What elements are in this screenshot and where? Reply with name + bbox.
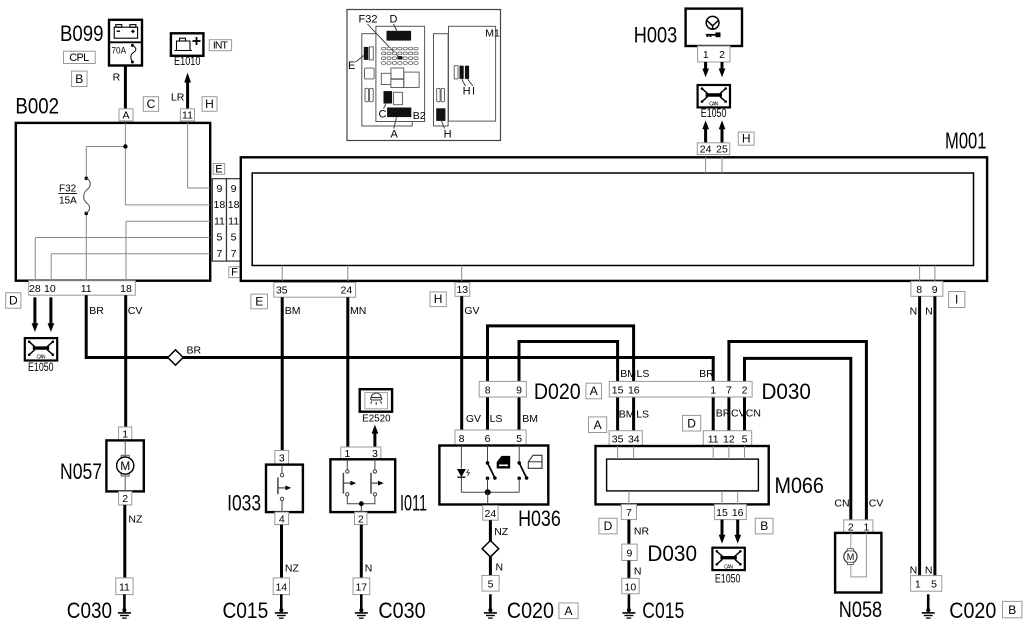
wire stub pin 9 bottom xyxy=(934,266,936,281)
svg-text:BR: BR xyxy=(187,344,202,356)
wire LS D020-8 to H036-6 xyxy=(486,397,489,430)
pin 1 box xyxy=(119,427,132,440)
svg-text:N: N xyxy=(496,562,504,574)
svg-text:LR: LR xyxy=(171,91,185,103)
top stubs xyxy=(618,446,745,459)
svg-text:B2: B2 xyxy=(413,110,426,122)
I011 box xyxy=(330,459,395,512)
pin 24 box xyxy=(483,506,498,521)
svg-text:E1010: E1010 xyxy=(174,56,201,68)
svg-text:18: 18 xyxy=(214,199,226,211)
wire stub pin 8 bottom xyxy=(919,266,921,281)
svg-text:CN: CN xyxy=(746,408,761,420)
wire N D030-9 to C015 xyxy=(627,561,630,579)
join to pin 2 xyxy=(347,496,375,512)
wire BM D020-9 to H036-5 xyxy=(518,397,521,430)
svg-text:D030: D030 xyxy=(647,541,697,566)
wire NZ N057-2 down xyxy=(123,505,126,578)
svg-text:A: A xyxy=(594,418,602,432)
svg-text:A: A xyxy=(391,129,399,141)
svg-text:1: 1 xyxy=(710,384,716,396)
wire MN M001-24 to I011-1 xyxy=(346,297,349,447)
svg-text:7: 7 xyxy=(231,248,237,260)
svg-text:H036: H036 xyxy=(518,506,561,531)
node diamond xyxy=(482,541,499,557)
boxed label C xyxy=(143,97,158,112)
wire NR M066-7 to D030-9 xyxy=(627,520,630,545)
svg-text:5: 5 xyxy=(516,433,522,445)
svg-text:N: N xyxy=(910,565,918,577)
pin row box 8 9 xyxy=(911,281,943,296)
svg-text:B: B xyxy=(1008,603,1016,617)
svg-text:BM: BM xyxy=(619,409,635,421)
svg-text:8: 8 xyxy=(459,433,465,445)
I033 box xyxy=(266,465,303,512)
pin A box xyxy=(119,109,133,121)
svg-text:R: R xyxy=(113,72,121,84)
svg-text:1: 1 xyxy=(122,429,128,441)
fuse grid xyxy=(382,47,419,64)
svg-text:4: 4 xyxy=(279,513,285,525)
pin 2 box xyxy=(119,491,132,505)
svg-text:M: M xyxy=(847,552,855,562)
svg-text:BM: BM xyxy=(620,368,636,380)
wire arrow up pin 24 xyxy=(704,129,707,143)
ground C020 B xyxy=(922,594,935,618)
wire R battery to B002 pin A xyxy=(124,66,127,110)
junction node dot xyxy=(123,144,127,148)
svg-text:C030: C030 xyxy=(378,598,425,623)
module M1 panel xyxy=(449,26,496,121)
svg-text:14: 14 xyxy=(275,582,287,594)
svg-text:C015: C015 xyxy=(223,598,269,623)
svg-text:B099: B099 xyxy=(60,21,104,46)
svg-text:D: D xyxy=(604,519,613,533)
wire arrow down B002-10 xyxy=(49,297,52,324)
wire LS D030-16 to M066-34 xyxy=(632,397,635,431)
ground C030 xyxy=(118,594,131,618)
motor M symbol xyxy=(124,440,126,456)
pin 11 box (C030) xyxy=(116,578,133,595)
boxed label H xyxy=(430,292,446,307)
svg-text:17: 17 xyxy=(355,582,367,594)
svg-text:1: 1 xyxy=(863,521,869,533)
B002 box xyxy=(16,123,210,281)
svg-text:5: 5 xyxy=(931,579,937,591)
svg-text:8: 8 xyxy=(485,384,491,396)
battery B099 box xyxy=(109,20,142,66)
H003 pin row box 1 2 xyxy=(698,46,730,62)
dome light icon xyxy=(371,393,381,398)
svg-text:1: 1 xyxy=(703,49,709,61)
svg-text:2: 2 xyxy=(848,521,854,533)
svg-text:35: 35 xyxy=(276,285,288,297)
svg-text:MN: MN xyxy=(350,305,366,317)
svg-text:5: 5 xyxy=(742,433,748,445)
wire BR D030-1 to M066-11 xyxy=(712,397,715,431)
svg-text:I: I xyxy=(955,293,958,307)
boxed label B xyxy=(755,518,773,534)
boxed label E xyxy=(251,294,268,309)
svg-text:E: E xyxy=(255,294,263,308)
svg-text:18: 18 xyxy=(120,283,132,295)
internal wiring xyxy=(851,533,867,577)
svg-text:I033: I033 xyxy=(227,491,261,516)
svg-text:11: 11 xyxy=(228,215,239,227)
svg-text:LS: LS xyxy=(636,409,649,421)
svg-text:9: 9 xyxy=(231,183,237,195)
switch 2 xyxy=(371,459,379,496)
slot E black xyxy=(364,47,369,60)
svg-text:34: 34 xyxy=(628,433,640,445)
boxed label D xyxy=(599,518,617,534)
pin 2 box xyxy=(355,512,368,525)
battery icon xyxy=(114,25,137,39)
M066 inner box xyxy=(607,459,759,491)
svg-text:18: 18 xyxy=(228,199,240,211)
ground C015 xyxy=(622,594,635,618)
ground C030 xyxy=(355,594,368,618)
svg-text:H: H xyxy=(434,292,443,306)
svg-text:12: 12 xyxy=(723,433,735,445)
M066 outer box xyxy=(596,446,769,504)
boxed label F xyxy=(229,267,241,278)
svg-text:A: A xyxy=(564,604,572,618)
pin row box 15 16 xyxy=(715,504,747,519)
svg-text:N: N xyxy=(925,305,933,317)
boxed label A xyxy=(589,417,607,433)
svg-text:A: A xyxy=(590,384,598,398)
wire BM loop D020-9 to D030-15 xyxy=(519,342,618,382)
svg-text:C020: C020 xyxy=(507,598,554,623)
N058 pin row box 2 1 xyxy=(844,520,873,533)
svg-text:GV: GV xyxy=(464,305,479,317)
svg-text:16: 16 xyxy=(732,507,744,519)
pin 3 box xyxy=(275,451,289,465)
svg-text:CPL: CPL xyxy=(69,52,89,64)
svg-text:9: 9 xyxy=(626,548,632,560)
bottom rail xyxy=(461,491,519,493)
svg-text:7: 7 xyxy=(626,507,632,519)
svg-text:24: 24 xyxy=(341,285,353,297)
svg-text:H: H xyxy=(444,129,452,141)
CAN node E1050 (bottom) xyxy=(712,548,744,571)
pin 14 box (C015) xyxy=(273,578,289,595)
B002 internal wires xyxy=(35,123,210,281)
connector A black xyxy=(387,108,411,118)
boxed label H xyxy=(738,132,754,145)
svg-text:C: C xyxy=(147,97,156,111)
svg-text:N057: N057 xyxy=(60,459,102,484)
N058 box xyxy=(835,533,881,593)
svg-text:13: 13 xyxy=(456,284,468,296)
svg-text:10: 10 xyxy=(44,283,56,295)
D030 pin row box xyxy=(609,381,752,397)
switch 1 (pin 6) xyxy=(487,446,489,462)
svg-text:BR: BR xyxy=(89,305,104,317)
svg-text:C030: C030 xyxy=(67,598,112,623)
M066 pin row box 11 12 5 xyxy=(703,431,751,446)
wire CN D030-2 to M066-5 xyxy=(743,397,746,431)
M001 pin row box 24 25 xyxy=(697,143,729,155)
svg-text:M001: M001 xyxy=(945,128,987,154)
wire CV B002-18 to N057-1 xyxy=(124,295,127,427)
pin 4 box xyxy=(275,512,289,525)
svg-text:INT: INT xyxy=(213,40,229,52)
slot beside E xyxy=(369,47,373,60)
wire CV loop D030-7 to N058 xyxy=(729,342,867,520)
switch 2 (pin 5) xyxy=(518,446,520,462)
CAN node E1050 (top) xyxy=(698,85,730,108)
svg-text:E1050: E1050 xyxy=(701,108,727,120)
H036 pin row box 8 6 5 xyxy=(455,430,526,446)
wire BR B002-11 down xyxy=(85,295,88,359)
H036 box xyxy=(439,446,548,505)
svg-text:D: D xyxy=(390,14,398,26)
M066 pin row box 35 34 xyxy=(609,431,642,446)
svg-text:E1050: E1050 xyxy=(715,573,741,585)
svg-text:H: H xyxy=(742,132,751,146)
boxed label B xyxy=(72,71,87,86)
svg-text:M: M xyxy=(120,459,130,473)
boxed label INT xyxy=(209,40,231,51)
wire stub pin 24 top xyxy=(705,157,707,173)
boxed label H xyxy=(202,97,217,112)
svg-text:C020: C020 xyxy=(949,598,996,623)
svg-text:10: 10 xyxy=(625,581,637,593)
svg-text:H: H xyxy=(463,86,471,98)
svg-text:E: E xyxy=(348,60,355,72)
svg-text:E1050: E1050 xyxy=(28,362,54,374)
wire arrow down M066-15 xyxy=(721,520,724,536)
wire stub pin 13 bottom xyxy=(461,266,463,281)
M001 outer box xyxy=(241,157,987,281)
svg-text:9: 9 xyxy=(932,284,938,296)
switch symbol xyxy=(278,465,286,512)
key icon xyxy=(706,32,721,37)
ground C015 xyxy=(275,594,288,618)
svg-text:9: 9 xyxy=(516,384,522,396)
svg-text:N: N xyxy=(925,565,933,577)
LED branch xyxy=(460,446,462,469)
svg-text:11: 11 xyxy=(708,433,719,445)
M001 inner box xyxy=(252,173,973,266)
wire arrow down pin 2 xyxy=(721,62,724,69)
svg-text:N058: N058 xyxy=(839,597,882,622)
svg-text:N: N xyxy=(365,563,373,575)
svg-text:3: 3 xyxy=(279,453,285,465)
svg-text:70A: 70A xyxy=(112,46,127,57)
wire CN loop D030-2 to N058 xyxy=(745,358,851,520)
svg-text:25: 25 xyxy=(716,143,728,155)
switch 1 xyxy=(343,459,351,496)
M1 slots xyxy=(454,66,458,79)
svg-text:LS: LS xyxy=(637,368,650,380)
wire arrow down B002-28 xyxy=(33,297,36,324)
svg-text:NZ: NZ xyxy=(128,514,143,526)
boxed label I xyxy=(949,292,965,308)
relay cluster center xyxy=(391,68,404,79)
left panel square slot xyxy=(365,68,375,79)
E2520 box xyxy=(360,389,392,412)
svg-text:1: 1 xyxy=(915,579,921,591)
pin row box 1 5 xyxy=(911,576,942,592)
wire arrow up I011-3 to E2520 xyxy=(373,433,376,447)
E1010 box xyxy=(171,33,204,56)
node diamond BR xyxy=(168,350,183,365)
wire N M001-9 down xyxy=(933,296,936,575)
wire arrow up to E1010 xyxy=(186,82,189,109)
wire BM M001-35 to I033-3 xyxy=(281,297,284,452)
svg-text:15: 15 xyxy=(612,384,624,396)
svg-text:15A: 15A xyxy=(59,196,77,207)
svg-text:CV: CV xyxy=(128,305,143,317)
boxed label A xyxy=(586,383,602,399)
svg-text:I011: I011 xyxy=(400,491,427,516)
svg-text:2: 2 xyxy=(719,49,725,61)
svg-text:2: 2 xyxy=(358,513,364,525)
boxed label A xyxy=(559,603,578,619)
steering wheel icon xyxy=(706,16,719,29)
svg-text:M1: M1 xyxy=(485,28,500,40)
fuse F32 symbol xyxy=(85,177,89,181)
wire arrow down pin 1 xyxy=(704,62,707,69)
pin row box 1 3 xyxy=(341,447,381,459)
wire CV D030-7 to M066-12 xyxy=(727,397,730,431)
door icon filled xyxy=(497,456,511,469)
right panel twin slots xyxy=(437,88,440,102)
svg-text:LS: LS xyxy=(490,413,503,425)
boxed label D xyxy=(683,415,701,431)
svg-text:M066: M066 xyxy=(775,473,824,498)
wire stub pin 24 bottom xyxy=(347,266,349,281)
fuse squiggle in B099 xyxy=(131,46,136,62)
H003 box xyxy=(686,9,742,46)
wire arrow down M066-16 xyxy=(736,520,739,536)
svg-text:B002: B002 xyxy=(15,94,59,119)
svg-text:5: 5 xyxy=(216,232,222,244)
svg-text:F: F xyxy=(231,267,238,279)
bottom stubs xyxy=(629,491,738,505)
wire NZ H036-24 down xyxy=(489,520,492,541)
door icon outline xyxy=(528,455,542,468)
svg-text:GV: GV xyxy=(466,413,481,425)
wire BM D030-15 to M066-35 xyxy=(616,397,619,431)
svg-text:D: D xyxy=(9,293,18,307)
boxed label CPL xyxy=(64,51,96,63)
wire stub pin 35 bottom xyxy=(281,266,283,281)
svg-text:NZ: NZ xyxy=(494,526,509,538)
svg-text:I: I xyxy=(472,86,475,98)
svg-text:2: 2 xyxy=(742,384,748,396)
svg-text:NZ: NZ xyxy=(285,563,300,575)
svg-text:C: C xyxy=(379,108,387,120)
boxed label B xyxy=(1003,601,1022,617)
pin 7 box xyxy=(621,504,636,519)
pin 11 box (top) xyxy=(180,109,194,121)
svg-text:11: 11 xyxy=(81,283,92,295)
wire stubs columns to M001 inner box xyxy=(241,188,252,254)
slot C black xyxy=(384,91,393,103)
svg-text:16: 16 xyxy=(628,384,640,396)
svg-text:11: 11 xyxy=(119,582,130,594)
svg-text:N: N xyxy=(634,566,642,578)
svg-text:B: B xyxy=(760,519,768,533)
svg-text:BM: BM xyxy=(285,305,301,317)
svg-text:35: 35 xyxy=(612,433,624,445)
pin 5 box (C020) xyxy=(482,576,499,592)
wire N I011-2 down xyxy=(360,525,363,578)
ground C020 xyxy=(484,594,497,618)
svg-text:24: 24 xyxy=(485,508,497,520)
svg-text:D020: D020 xyxy=(534,379,581,404)
boxed label D xyxy=(6,293,21,309)
wire N M001-8 down xyxy=(918,296,921,575)
svg-text:D030: D030 xyxy=(762,379,811,404)
CAN node E1050 (left) xyxy=(25,338,57,361)
wire NZ I033-4 down xyxy=(280,525,283,578)
svg-text:5: 5 xyxy=(231,232,237,244)
svg-text:15: 15 xyxy=(716,507,728,519)
wire stub pin 25 top xyxy=(721,157,723,173)
inset outer frame xyxy=(347,10,501,141)
svg-text:BR: BR xyxy=(699,368,714,380)
motor M symbol xyxy=(844,550,857,563)
svg-text:11: 11 xyxy=(214,215,225,227)
connector column E (left) xyxy=(212,179,226,261)
B002 bottom pin row box xyxy=(29,281,136,296)
svg-text:E2520: E2520 xyxy=(362,412,391,424)
boxed label E xyxy=(213,164,225,175)
left panel twin slots xyxy=(365,88,369,102)
svg-text:9: 9 xyxy=(216,183,222,195)
svg-text:BR: BR xyxy=(716,408,731,420)
wire BR horizontal bus xyxy=(86,356,715,359)
svg-text:CV: CV xyxy=(869,498,884,510)
svg-text:5: 5 xyxy=(488,579,494,591)
svg-text:CN: CN xyxy=(834,498,849,510)
svg-text:24: 24 xyxy=(700,143,712,155)
connector H black (bottom) xyxy=(436,108,445,121)
svg-text:B: B xyxy=(75,72,83,86)
svg-text:CV: CV xyxy=(731,408,746,420)
right rear panel xyxy=(434,34,449,126)
pin 13 box xyxy=(455,283,470,297)
pin 17 box (C030) xyxy=(353,578,370,595)
svg-text:2: 2 xyxy=(122,493,128,505)
svg-text:7: 7 xyxy=(216,248,222,260)
svg-text:11: 11 xyxy=(182,110,193,122)
wire N to C020 xyxy=(489,557,492,576)
svg-text:H003: H003 xyxy=(634,23,677,48)
svg-text:8: 8 xyxy=(916,284,922,296)
left panel xyxy=(362,34,412,126)
pin row box 35 24 xyxy=(274,283,356,298)
fuse F32 highlighted xyxy=(397,56,402,59)
svg-text:H: H xyxy=(205,97,214,111)
svg-text:E: E xyxy=(215,163,222,175)
svg-text:A: A xyxy=(122,110,129,122)
central fuse panel xyxy=(376,26,425,121)
svg-text:D: D xyxy=(687,416,696,430)
svg-text:7: 7 xyxy=(726,384,732,396)
connector column (right) xyxy=(227,179,241,261)
pin 9 box (D030) xyxy=(622,544,637,560)
wire LS loop D020-8 to D030-16 xyxy=(488,326,634,382)
svg-text:NR: NR xyxy=(634,526,650,538)
N057 box xyxy=(106,440,143,491)
pin 10 box (C015) xyxy=(622,578,639,593)
